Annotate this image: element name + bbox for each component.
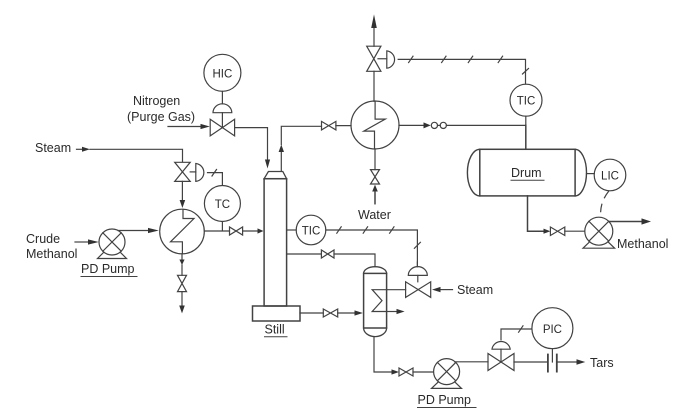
svg-text:Tars: Tars <box>590 356 614 370</box>
svg-text:Steam: Steam <box>457 283 493 297</box>
wire steam right <box>441 289 453 291</box>
wire reboiler bottom outlet <box>374 337 392 372</box>
wire drain to arrow end <box>181 292 183 306</box>
arrowhead on steam line <box>82 147 90 152</box>
svg-text:PD Pump: PD Pump <box>81 262 135 276</box>
wire cooling water line <box>374 149 376 170</box>
svg-text:Crude: Crude <box>26 232 60 246</box>
wire HIC stem <box>221 91 223 104</box>
drum D1 <box>467 149 586 196</box>
wire still overhead vapor line <box>280 152 282 171</box>
svg-text:Methanol: Methanol <box>26 247 77 261</box>
svg-text:Still: Still <box>265 323 285 337</box>
control valve V10 (steam to reboiler) <box>406 282 431 298</box>
slash on TC signal <box>212 170 217 177</box>
valve V11 (reboiler outlet bowtie) <box>399 368 413 376</box>
valve V13 (drum outlet bowtie) <box>550 227 564 236</box>
control valve V6 (vent, vertical bowtie) <box>367 46 381 71</box>
svg-text:Drum: Drum <box>511 166 542 180</box>
wire condenser top to vent valve <box>373 71 375 101</box>
wire drum riser <box>525 125 527 149</box>
valve V7 (water, vertical bowtie) <box>371 170 380 184</box>
controller TIC (top) <box>510 84 542 116</box>
wire E1 condensate drain down <box>181 254 183 260</box>
signal wire TIC to steam valve actuator <box>326 230 418 267</box>
wire vapor to condenser <box>336 125 351 127</box>
orifice flange plates <box>547 355 549 372</box>
svg-text:(Purge Gas): (Purge Gas) <box>127 110 195 124</box>
E3 coil sigma zigzag <box>372 290 386 312</box>
actuator of V1 (D-diaphragm right side) <box>190 171 196 173</box>
reboiler E3 <box>364 267 387 337</box>
signal wire V6 actuator to TIC (top) <box>398 59 525 84</box>
controller LIC <box>587 173 595 175</box>
pump P2 PD Pump (bottom) <box>432 374 462 388</box>
signal wire V1 actuator to TC <box>208 173 223 185</box>
signal wire LIC to pump (dashed) <box>601 192 609 217</box>
controller HIC <box>204 54 241 91</box>
actuator dome of nitrogen valve <box>213 104 232 113</box>
wire valve V1 to heater E1 <box>181 181 183 200</box>
wire pump P1 discharge to heater E1 <box>118 230 148 232</box>
wire PIC stem to orifice <box>551 349 553 362</box>
wire steam supply line <box>77 148 83 150</box>
still column T1 <box>264 172 287 179</box>
pump P1 PD Pump (left) <box>98 244 127 259</box>
svg-text:TC: TC <box>215 199 230 211</box>
E2 coil zigzag <box>364 101 386 149</box>
control valve V1 (steam to heater, vertical bowtie) <box>175 162 191 181</box>
arrowhead into heater <box>180 200 186 208</box>
controller TC <box>204 186 240 222</box>
wire nitrogen to still top <box>235 128 268 160</box>
actuator of V6 (D-diaphragm right) <box>378 58 387 60</box>
wire crude feed arrow <box>75 241 88 243</box>
wire drum bottom outlet <box>528 196 544 231</box>
wire vent to top arrow <box>373 28 375 46</box>
condenser E2 <box>351 101 399 149</box>
svg-text:TIC: TIC <box>517 96 536 108</box>
wire methanol product arrow <box>609 221 642 223</box>
wire P2 discharge to tars valve <box>455 361 488 363</box>
valve V8 (side draw bowtie) <box>321 250 334 258</box>
valve V9 (bottoms bowtie) <box>323 309 337 317</box>
wire valve to orifice flanges <box>514 361 548 363</box>
wire condenser outlet to drum <box>399 124 424 126</box>
wire still bottoms to reboiler <box>300 312 355 314</box>
actuator dome of V12 <box>492 342 510 350</box>
svg-text:PIC: PIC <box>543 324 562 336</box>
wire reboiler vapor return arrow <box>387 311 397 313</box>
wire TIC stem to reflux line <box>525 116 527 125</box>
controller PIC <box>532 308 573 349</box>
svg-text:LIC: LIC <box>601 171 619 183</box>
valve V2 (small bowtie on feed line) <box>230 227 243 235</box>
wire E1 outlet to still <box>204 230 257 232</box>
svg-text:Steam: Steam <box>35 141 71 155</box>
arrowhead water up <box>372 185 378 192</box>
controller TIC (still) <box>287 229 297 231</box>
stem dome to valve <box>221 113 223 128</box>
svg-text:Nitrogen: Nitrogen <box>133 94 180 108</box>
pump P3 (methanol product) <box>583 233 615 248</box>
svg-text:Water: Water <box>358 208 391 222</box>
svg-text:PD Pump: PD Pump <box>418 393 472 407</box>
valve V5 (vapor line small bowtie) <box>322 121 336 129</box>
wire to methanol pump <box>565 230 585 232</box>
valve V3 (vertical bowtie drain) <box>178 275 187 291</box>
actuator dome of steam valve (right) <box>416 262 418 267</box>
control valve V12 (tars, horizontal bowtie) <box>488 354 514 371</box>
signal wire V12 to PIC <box>501 329 532 340</box>
wire still side draw to reboiler top <box>287 254 375 267</box>
svg-text:Methanol: Methanol <box>617 237 668 251</box>
arrowhead into still <box>258 228 264 233</box>
svg-text:TIC: TIC <box>302 226 321 238</box>
wire TC stem to process line <box>221 222 223 231</box>
slashes on TIC signal <box>337 227 341 233</box>
fitting circles on condensate line <box>431 122 437 128</box>
wire nitrogen line <box>168 126 201 128</box>
svg-text:HIC: HIC <box>212 68 232 80</box>
control valve V4 (nitrogen, horizontal bowtie) <box>210 119 234 136</box>
wire orifice to tars arrow <box>557 361 577 363</box>
slashes on vent signal line <box>409 56 413 62</box>
wire to bottom pump <box>413 371 434 373</box>
heat exchanger E1 (feed heater) <box>160 209 205 254</box>
E1 coil zigzag <box>171 209 195 253</box>
